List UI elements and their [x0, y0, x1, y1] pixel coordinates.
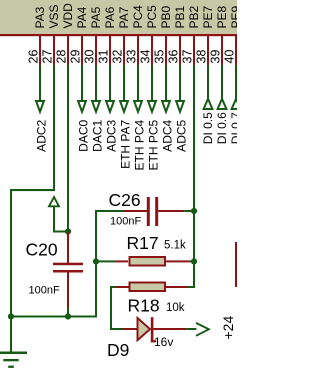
- svg-text:PE9: PE9: [229, 5, 237, 28]
- junction node C20/ground rail: [65, 313, 71, 319]
- pin name PA7 (pin 32): [117, 6, 131, 28]
- value 100nF (C20): [29, 285, 60, 297]
- pin stub 33 (PC4): [137, 36, 139, 65]
- wire pin 32 to terminal ETH PA7: [123, 65, 125, 101]
- svg-text:38: 38: [195, 50, 209, 64]
- pin number 39: [209, 50, 223, 64]
- svg-text:32: 32: [111, 50, 125, 64]
- wire pin 40 to terminal DI 0.7: [235, 65, 237, 100]
- pin name PB2 (pin 37): [187, 5, 201, 28]
- svg-text:37: 37: [181, 50, 195, 64]
- svg-text:DAC1: DAC1: [91, 119, 105, 151]
- svg-text:ADC5: ADC5: [175, 119, 189, 151]
- pin number 30: [83, 50, 97, 64]
- svg-text:ADC3: ADC3: [105, 119, 119, 151]
- svg-text:31: 31: [97, 50, 111, 64]
- svg-text:+24: +24: [220, 316, 236, 340]
- terminal arrow (output, down) ETH PA7: [120, 101, 128, 112]
- net label DI 0.6: [215, 112, 229, 144]
- svg-text:PC5: PC5: [145, 5, 159, 29]
- value 16v: [154, 335, 173, 349]
- pin number 29: [69, 50, 83, 64]
- wire pin 38 to terminal DI 0.5: [207, 65, 209, 100]
- IC body U1 (microcontroller, clipped at top): [0, 0, 242, 36]
- wire ground rail horizontal: [10, 316, 97, 318]
- pin name VSS (pin 27): [47, 4, 61, 28]
- svg-text:10k: 10k: [166, 302, 185, 314]
- net label ETH PA7: [119, 119, 133, 168]
- pin name PA3 (pin 26): [33, 6, 47, 28]
- pin stub 34 (PC5): [151, 36, 153, 65]
- pin number 38: [195, 50, 209, 64]
- diode D9 (zener 16v): [123, 317, 197, 342]
- junction node C26/pin37 wire: [191, 208, 197, 214]
- svg-text:35: 35: [153, 50, 167, 64]
- terminal arrow (output, down) DAC1: [92, 101, 100, 112]
- svg-text:DAC0: DAC0: [77, 119, 91, 151]
- svg-text:ADC2: ADC2: [35, 119, 49, 151]
- power terminal +V (up arrow): [49, 197, 68, 233]
- pin stub 36 (PB1): [179, 36, 181, 65]
- pin stub 31 (PA6): [109, 36, 111, 65]
- wire pin 28 (VDD) vertical: [67, 65, 69, 232]
- resistor R18: [111, 283, 195, 292]
- svg-text:28: 28: [55, 50, 69, 64]
- pin stub 30 (PA5): [95, 36, 97, 65]
- svg-text:29: 29: [69, 50, 83, 64]
- svg-text:PA5: PA5: [89, 6, 103, 28]
- pin stub 39 (PE8): [221, 36, 223, 65]
- pin stub 35 (PB0): [165, 36, 167, 65]
- pin stub 26 (PA3): [39, 36, 41, 65]
- capacitor C26: [96, 197, 193, 226]
- pin number 37: [181, 50, 195, 64]
- terminal arrow (output, down) ADC5: [176, 101, 184, 112]
- pin stub 38 (PE7): [207, 36, 209, 65]
- junction node R17/pin37 wire: [191, 258, 197, 264]
- terminal arrow (output, down) ETH PC5: [148, 101, 156, 112]
- pin name PE9 (pin 40): [229, 5, 243, 28]
- svg-text:C20: C20: [26, 240, 58, 260]
- net label ADC2: [35, 119, 49, 151]
- wire pin 37 (PB2) vertical: [193, 65, 195, 288]
- svg-text:16v: 16v: [154, 335, 173, 349]
- pin name PC4 (pin 33): [131, 5, 145, 29]
- pin name PE8 (pin 39): [215, 5, 229, 28]
- junction node R17/ground vertical: [93, 258, 99, 264]
- label R17: [127, 233, 159, 253]
- svg-text:30: 30: [83, 50, 97, 64]
- pin name PC5 (pin 34): [145, 5, 159, 29]
- net label DI 0.5: [201, 112, 215, 144]
- svg-text:26: 26: [27, 50, 41, 64]
- svg-text:ETH PC4: ETH PC4: [133, 119, 147, 170]
- pin stub 37 (PB2): [193, 36, 195, 65]
- svg-text:VSS: VSS: [47, 4, 61, 28]
- pin name VDD (pin 28): [61, 3, 75, 29]
- svg-text:PB2: PB2: [187, 5, 201, 28]
- svg-text:R17: R17: [127, 233, 159, 253]
- resistor (clipped at right edge): [235, 242, 238, 287]
- svg-text:D9: D9: [107, 340, 129, 360]
- svg-text:PB1: PB1: [173, 5, 187, 28]
- net label ADC3: [105, 119, 119, 151]
- resistor R17: [96, 257, 195, 266]
- net label ETH PC5: [147, 119, 161, 170]
- capacitor C20: [53, 232, 83, 318]
- value 10k: [166, 302, 185, 314]
- pin stub 40 (PE9): [235, 36, 237, 65]
- pin number 28: [55, 50, 69, 64]
- label C26: [109, 190, 141, 210]
- svg-text:27: 27: [41, 50, 55, 64]
- pin number 35: [153, 50, 167, 64]
- pin number 26: [27, 50, 41, 64]
- svg-text:DI 0.5: DI 0.5: [201, 112, 215, 144]
- wire pin 30 to terminal DAC1: [95, 65, 97, 101]
- label R18: [128, 296, 160, 316]
- pin stub 32 (PA7): [123, 36, 125, 65]
- terminal arrow (output, down) ADC2: [36, 101, 44, 112]
- pin name PA6 (pin 31): [103, 6, 117, 28]
- svg-text:36: 36: [167, 50, 181, 64]
- terminal arrow (output, down) ETH PC4: [134, 101, 142, 112]
- terminal arrow (output, down) ADC3: [106, 101, 114, 112]
- wire pin 26 to terminal ADC2: [39, 65, 41, 101]
- ground symbol: [0, 317, 27, 368]
- pin name PB0 (pin 35): [159, 5, 173, 28]
- svg-text:34: 34: [139, 50, 153, 64]
- wire pin 27 (VSS) vertical: [53, 65, 55, 190]
- pin number 33: [125, 50, 139, 64]
- svg-text:PA7: PA7: [117, 6, 131, 28]
- svg-text:ADC4: ADC4: [161, 119, 175, 151]
- wire pin 33 to terminal ETH PC4: [137, 65, 139, 101]
- label C20: [26, 240, 58, 260]
- pin stub 27 (VSS): [53, 36, 55, 65]
- svg-text:40: 40: [223, 50, 237, 64]
- net label ADC5: [175, 119, 189, 151]
- pin name PB1 (pin 36): [173, 5, 187, 28]
- value 100nF (C26): [110, 216, 141, 228]
- pin number 36: [167, 50, 181, 64]
- net label DAC1: [91, 119, 105, 151]
- svg-text:100nF: 100nF: [110, 216, 141, 228]
- svg-text:PE7: PE7: [201, 5, 215, 28]
- svg-text:DI 0.6: DI 0.6: [215, 112, 229, 144]
- wire VSS horizontal to left rail: [10, 189, 55, 191]
- terminal arrow (output, down) DAC0: [78, 101, 86, 112]
- svg-text:5.1k: 5.1k: [164, 240, 186, 252]
- junction node left rail/ground rail: [8, 313, 14, 319]
- wire pin 31 to terminal ADC3: [109, 65, 111, 101]
- svg-text:100nF: 100nF: [29, 285, 60, 297]
- svg-text:PB0: PB0: [159, 5, 173, 28]
- junction node VDD/C20: [65, 228, 71, 234]
- svg-text:PA4: PA4: [75, 6, 89, 28]
- wire pin 39 to terminal DI 0.6: [221, 65, 223, 100]
- pin stub 28 (VDD): [67, 36, 69, 65]
- power terminal +24 (right arrow): [196, 323, 209, 336]
- svg-text:33: 33: [125, 50, 139, 64]
- pin number 31: [97, 50, 111, 64]
- wire pin 36 to terminal ADC5: [179, 65, 181, 101]
- svg-text:39: 39: [209, 50, 223, 64]
- svg-text:ETH PA7: ETH PA7: [119, 119, 133, 168]
- svg-text:ETH PC5: ETH PC5: [147, 119, 161, 170]
- wire ground-rail to C26/R17 vertical: [95, 210, 97, 317]
- terminal arrow (input, up) DI 0.7: [232, 99, 241, 109]
- terminal arrow (output, down) ADC4: [162, 101, 170, 112]
- net label DAC0: [77, 119, 91, 151]
- svg-text:R18: R18: [128, 296, 160, 316]
- svg-text:PA3: PA3: [33, 6, 47, 28]
- svg-text:DI 0.7: DI 0.7: [229, 112, 237, 144]
- label D9: [107, 340, 129, 360]
- pin number 32: [111, 50, 125, 64]
- svg-text:VDD: VDD: [61, 3, 75, 29]
- wire pin 35 to terminal ADC4: [165, 65, 167, 101]
- svg-text:PA6: PA6: [103, 6, 117, 28]
- net label +24: [220, 316, 236, 340]
- pin number 40: [223, 50, 237, 64]
- svg-text:C26: C26: [109, 190, 141, 210]
- pin number 34: [139, 50, 153, 64]
- wire R18 left to D9 anode: [110, 286, 123, 330]
- terminal arrow (input, up) DI 0.5: [204, 99, 213, 109]
- wire pin 29 to terminal DAC0: [81, 65, 83, 101]
- value 5.1k: [164, 240, 186, 252]
- pin name PA4 (pin 29): [75, 6, 89, 28]
- pin number 27: [41, 50, 55, 64]
- terminal arrow (input, up) DI 0.6: [218, 99, 227, 109]
- pin name PA5 (pin 30): [89, 6, 103, 28]
- wire pin 34 to terminal ETH PC5: [151, 65, 153, 101]
- net label DI 0.7: [229, 112, 243, 144]
- svg-text:PC4: PC4: [131, 5, 145, 29]
- net label ETH PC4: [133, 119, 147, 170]
- pin stub 29 (PA4): [81, 36, 83, 65]
- pin name PE7 (pin 38): [201, 5, 215, 28]
- wire left ground rail vertical: [10, 189, 12, 353]
- svg-text:PE8: PE8: [215, 5, 229, 28]
- net label ADC4: [161, 119, 175, 151]
